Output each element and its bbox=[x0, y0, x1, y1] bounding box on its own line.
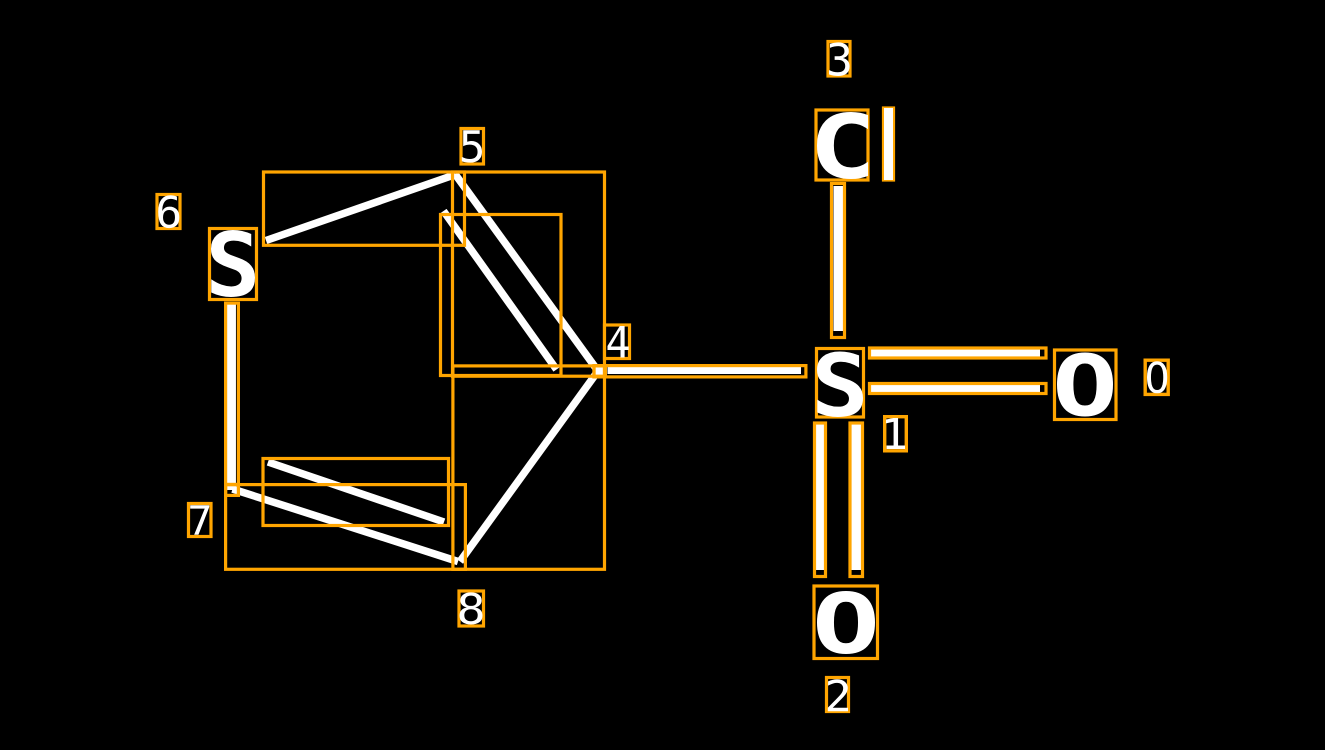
bond S6-C5 bbox=[266, 175, 456, 241]
label box 7 bbox=[189, 504, 212, 537]
label 3 bbox=[829, 42, 850, 76]
bbox atom Cl3 letter l bbox=[884, 108, 894, 180]
atom Cl3 letter l bbox=[884, 108, 893, 180]
label 5 bbox=[462, 130, 482, 162]
bbox bond C8-C7 outer bbox=[226, 485, 466, 570]
bbox atom S6 bbox=[210, 229, 257, 300]
node C7 box bbox=[226, 485, 239, 496]
bbox bond C5-C4 inner bbox=[441, 215, 562, 376]
bbox bond C5-C4 outer bbox=[453, 172, 605, 376]
node C4 junction dot bbox=[595, 367, 604, 376]
label box 2 bbox=[827, 678, 849, 712]
bbox bond C4-C8 bbox=[453, 366, 605, 569]
bond C8-C7 outer bbox=[233, 489, 459, 562]
atom S6 bbox=[211, 230, 255, 297]
label box 0 bbox=[1145, 360, 1168, 394]
label 0 bbox=[1147, 361, 1167, 393]
bbox bond C7-S6 bbox=[226, 303, 239, 484]
bbox bond S1=O2 right bbox=[850, 423, 863, 577]
atom O2 bbox=[817, 591, 875, 654]
atom Cl3 letter C bbox=[817, 112, 868, 179]
bbox atom Cl3 letter C bbox=[816, 110, 868, 180]
bond C4-C8 bbox=[460, 371, 598, 562]
bbox bond C4-S1 bbox=[594, 366, 806, 377]
bond C5-C4 inner bbox=[444, 211, 557, 370]
atom S1 bbox=[817, 351, 863, 417]
atom O0 bbox=[1057, 352, 1113, 416]
bbox bond S1=O0 upper bbox=[870, 348, 1047, 358]
label 1 bbox=[886, 418, 905, 449]
bond C4-S1 bbox=[608, 367, 802, 374]
bbox bond Cl3-S1 bbox=[832, 184, 845, 338]
label 7 bbox=[190, 505, 209, 535]
bbox bond S6-C5 bbox=[264, 172, 465, 245]
label box 8 bbox=[459, 591, 484, 626]
bbox bond C8-C7 inner bbox=[263, 459, 449, 526]
bond C7-S6 bbox=[226, 303, 236, 490]
label box 3 bbox=[828, 42, 850, 77]
label 6 bbox=[158, 195, 179, 228]
bbox atom O2 bbox=[814, 586, 878, 659]
bond C8-C7 inner bbox=[268, 462, 444, 522]
bbox bond S1=O2 left bbox=[815, 423, 826, 577]
bond S1=O2 right line bbox=[852, 425, 862, 571]
label 4 bbox=[608, 326, 629, 358]
bond C5-C4 outer bbox=[455, 174, 598, 371]
node C4 box bbox=[594, 366, 605, 377]
bond S1=O0 lower line bbox=[871, 385, 1040, 393]
bbox bond S1=O0 lower bbox=[870, 384, 1047, 394]
label 2 bbox=[828, 679, 848, 711]
bond Cl3-S1 bbox=[834, 186, 844, 331]
bbox atom S1 bbox=[817, 349, 864, 418]
bbox atom O0 bbox=[1055, 350, 1117, 420]
label 8 bbox=[460, 592, 483, 624]
label box 4 bbox=[605, 325, 630, 359]
label box 5 bbox=[461, 129, 484, 165]
label box 6 bbox=[157, 195, 180, 229]
bond S1=O0 upper line bbox=[871, 349, 1040, 357]
label box 1 bbox=[885, 417, 907, 451]
bond S1=O2 left line bbox=[816, 425, 824, 571]
